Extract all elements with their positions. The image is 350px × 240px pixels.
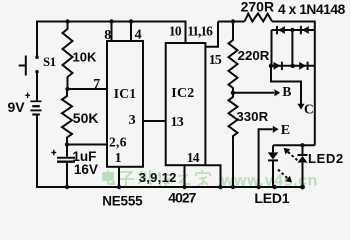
diode D3 triangle [274, 62, 281, 70]
arrowhead node E [273, 126, 279, 133]
LED2 triangle [297, 156, 307, 163]
LED1 bar [268, 159, 278, 161]
junction dot gnd pin1 [117, 185, 121, 189]
svg-text:2,6: 2,6 [109, 135, 127, 150]
svg-text:NE555: NE555 [102, 193, 143, 208]
diode D4 triangle [299, 62, 306, 70]
switch S1 contact top [35, 55, 39, 59]
wire node E [259, 129, 273, 187]
op IC2 box 4027 [166, 43, 206, 165]
svg-text:E: E [281, 123, 290, 138]
wire IC2 pin14 [205, 165, 220, 187]
diode row top wire [272, 29, 315, 31]
plus capacitor [51, 150, 56, 156]
switch S1 contact bottom [35, 70, 39, 74]
svg-text:9V: 9V [8, 99, 26, 115]
LED light arrow down-right [278, 170, 288, 179]
LED1 triangle [268, 152, 279, 159]
wire IC1 pin1 ground [118, 167, 120, 187]
junction dot pin7 [65, 87, 69, 91]
diode row bottom wire [271, 65, 315, 67]
battery B1 plate4 [32, 113, 40, 115]
capacitor C1 plate top [57, 157, 75, 159]
wire top V+ rail [37, 22, 186, 58]
wire IC1 pin7 [68, 88, 108, 90]
wire diode mid vertical [291, 30, 293, 66]
svg-text:14: 14 [187, 150, 200, 165]
wire ground rail [37, 116, 303, 188]
wire IC2 pins 3,9,12 ground [184, 165, 186, 187]
svg-text:270R: 270R [241, 0, 274, 14]
junction dot gnd 330R [231, 185, 235, 189]
svg-text:10K: 10K [73, 50, 97, 65]
junction dot gnd 3912 [182, 185, 186, 189]
LED1 leads [272, 145, 274, 187]
junction dot diode mid top [290, 28, 294, 32]
junction dot gnd nodeE [256, 185, 260, 189]
junction dot rail 10K [65, 19, 69, 23]
diode D2 triangle [302, 26, 309, 34]
junction dot diode left bottom [269, 64, 273, 68]
svg-text:8: 8 [104, 28, 111, 43]
arrowhead light up-left [284, 148, 291, 155]
svg-text:3,9,12: 3,9,12 [139, 170, 177, 185]
svg-text:IC1: IC1 [114, 86, 137, 101]
junction dot rail pin8 [109, 19, 113, 23]
diode D3 bar [281, 62, 283, 70]
junction dot rail pin4 [129, 19, 133, 23]
LED top wire [273, 144, 315, 146]
svg-text:IC2: IC2 [171, 86, 194, 101]
svg-text:4 x 1N4148: 4 x 1N4148 [278, 2, 346, 17]
switch S1 lever [19, 56, 26, 76]
junction dot LED2 top [300, 143, 304, 147]
svg-text:LED2: LED2 [308, 151, 344, 166]
resistor R 50K [62, 89, 72, 145]
junction dot gnd LED2 [300, 185, 305, 190]
capacitor C1 1uF lead [66, 145, 68, 157]
svg-text:4: 4 [135, 27, 142, 42]
diode D2 bar [300, 26, 302, 34]
svg-text:13: 13 [171, 115, 184, 130]
arrowhead light down-right [285, 176, 292, 183]
wire IC1 pin3 to IC2 pin13 [143, 120, 166, 122]
battery B1 lead top [36, 72, 38, 101]
junction dot rail 220R [231, 19, 235, 23]
svg-text:LED1: LED1 [254, 190, 289, 206]
LED2 leads [302, 145, 304, 187]
arrowhead node B [274, 89, 280, 96]
diode D1 triangle [278, 26, 285, 34]
battery B1 plate2 [32, 105, 40, 107]
junction dot gnd cap [65, 185, 69, 189]
LED light arrow up-left [288, 151, 298, 160]
junction dot cap [65, 142, 69, 146]
svg-text:B: B [282, 84, 291, 99]
resistor R 330R [229, 93, 238, 187]
junction dot node B [231, 91, 235, 95]
svg-text:3: 3 [129, 113, 136, 128]
junction dot gnd LED1 [272, 185, 276, 189]
watermark green text [103, 170, 318, 190]
capacitor C1 lead bottom [66, 163, 68, 187]
svg-text:330R: 330R [236, 109, 268, 124]
resistor R 220R [229, 22, 238, 93]
svg-text:220R: 220R [238, 48, 270, 63]
plus battery [25, 93, 30, 99]
wire IC1 pin4 drop [130, 22, 132, 42]
wire IC1 pin2,6 [67, 144, 107, 146]
svg-text:10: 10 [169, 23, 182, 38]
wire IC2 pin15 [205, 22, 218, 47]
LED2 bar [298, 154, 308, 156]
wire diode left vertical [271, 30, 273, 66]
capacitor C1 plate bottom [57, 160, 75, 162]
svg-text:11,16: 11,16 [187, 23, 213, 38]
resistor R 10K [63, 22, 73, 90]
svg-text:16V: 16V [74, 162, 98, 177]
junction dot diode mid bottom [291, 64, 295, 68]
resistor R 270R [245, 13, 273, 21]
wire pin15 rail [218, 21, 245, 23]
wire node B [233, 92, 274, 94]
arrowhead node C [297, 104, 304, 110]
svg-text:7: 7 [93, 77, 100, 92]
battery B1 plate3 [30, 109, 41, 111]
wire node C path [271, 66, 301, 104]
wire 270R to diodes [272, 22, 315, 146]
diode D1 bar [276, 26, 278, 34]
svg-text:50K: 50K [73, 110, 99, 126]
junction dot gnd pin14 [218, 185, 222, 189]
battery B1 plate1 [30, 100, 41, 102]
diode D4 bar [307, 62, 309, 70]
svg-text:S1: S1 [43, 55, 56, 69]
svg-text:C: C [304, 101, 314, 116]
svg-text:15: 15 [209, 53, 222, 68]
svg-text:4027: 4027 [168, 190, 196, 206]
svg-text:1: 1 [115, 151, 122, 166]
op IC1 box NE555 [107, 41, 143, 167]
wire IC1 pin8 drop [111, 22, 113, 42]
